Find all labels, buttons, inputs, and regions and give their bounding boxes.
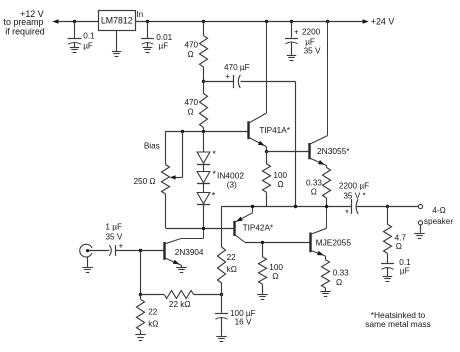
ground Q1 emitter xyxy=(176,265,187,272)
transistor Q4 TIP42A xyxy=(235,207,274,243)
resistor R9 22 kohm xyxy=(135,295,158,341)
svg-text:0.33: 0.33 xyxy=(306,178,322,187)
svg-text:100: 100 xyxy=(269,263,283,272)
svg-text:(3): (3) xyxy=(227,179,237,189)
junction rail/4.7 ohm xyxy=(386,205,389,208)
junction Q2 emitter node xyxy=(265,150,268,153)
svg-text:TIP41A*: TIP41A* xyxy=(259,126,290,135)
connector J1 input jack xyxy=(80,244,93,272)
terminal speaker - with ground xyxy=(414,221,425,239)
svg-text:+24 V: +24 V xyxy=(371,17,395,27)
svg-text:if required: if required xyxy=(5,26,45,36)
svg-text:2200 µF: 2200 µF xyxy=(339,181,369,190)
svg-text:Ω: Ω xyxy=(396,242,402,251)
resistor R8 4.7 ohm xyxy=(384,207,407,264)
svg-text:speaker: speaker xyxy=(424,217,453,226)
junction rail/Q3 collector xyxy=(326,20,329,23)
svg-text:+: + xyxy=(225,72,230,81)
resistor R3 100 ohm xyxy=(263,151,288,207)
wire +24V rail xyxy=(136,19,369,24)
junction feedback right xyxy=(220,293,223,296)
svg-text:Ω: Ω xyxy=(187,107,193,116)
svg-text:µF: µF xyxy=(305,37,315,46)
svg-text:µF: µF xyxy=(400,267,410,276)
junction bias/wiper xyxy=(181,130,184,133)
transistor Q5 MJE2055 xyxy=(311,207,352,257)
capacitor C7 1uF 35V input xyxy=(89,223,164,256)
svg-text:Ω: Ω xyxy=(278,180,284,189)
svg-text:22: 22 xyxy=(148,308,158,317)
svg-text:Bias: Bias xyxy=(144,142,160,151)
capacitor C5 2200uF 35V output xyxy=(339,181,388,217)
svg-text:2200: 2200 xyxy=(302,27,321,36)
ground LM7812 xyxy=(112,31,121,57)
svg-text:100: 100 xyxy=(273,171,287,180)
svg-text:*: * xyxy=(212,169,216,179)
junction bootstrap node xyxy=(202,80,205,83)
svg-text:*: * xyxy=(212,190,216,200)
label 4-ohm speaker xyxy=(424,206,453,226)
transistor Q2 TIP41A xyxy=(249,21,291,151)
wire bias bottom node xyxy=(166,228,235,230)
svg-text:µF: µF xyxy=(159,41,169,50)
junction rail/Q2 collector xyxy=(265,20,268,23)
capacitor C6 0.1uF zobel xyxy=(381,258,411,282)
junction rail/Q4 emitter xyxy=(251,205,254,208)
svg-text:0.1: 0.1 xyxy=(83,32,95,41)
svg-text:In: In xyxy=(136,10,143,19)
capacitor C1 0.1uF xyxy=(68,21,96,53)
transistor Q1 2N3904 xyxy=(165,228,204,265)
svg-text:470: 470 xyxy=(184,41,198,50)
junction +12V/0.1uF xyxy=(73,20,76,23)
label +24 V xyxy=(371,17,395,27)
label In pin xyxy=(136,10,143,19)
resistor R7 0.33 ohm xyxy=(320,256,349,297)
svg-text:Ω: Ω xyxy=(187,50,193,59)
resistor R6 100 ohm xyxy=(257,243,283,300)
wire rail to speaker terminal xyxy=(388,206,419,208)
terminal speaker + xyxy=(418,204,422,208)
junction Q4 collector/100 ohm xyxy=(261,241,264,244)
svg-text:*: * xyxy=(345,208,349,218)
svg-text:kΩ: kΩ xyxy=(227,265,237,274)
svg-text:22: 22 xyxy=(227,253,237,262)
svg-text:kΩ: kΩ xyxy=(148,320,158,329)
resistor R4 0.33 ohm xyxy=(306,166,330,207)
regulator U1 LM7812 xyxy=(99,11,136,31)
svg-text:470: 470 xyxy=(184,98,198,107)
capacitor C4 2200uF 35V xyxy=(285,20,321,61)
junction rail/Q3-Q5 xyxy=(325,205,328,208)
svg-text:Ω: Ω xyxy=(336,278,342,287)
svg-text:TIP42A*: TIP42A* xyxy=(243,224,274,233)
diode string D1-D3 IN4002 x3 xyxy=(197,132,244,229)
junction feedback left xyxy=(139,293,142,296)
svg-text:1 µF: 1 µF xyxy=(105,223,122,232)
svg-text:LM7812: LM7812 xyxy=(101,16,133,26)
svg-text:µF: µF xyxy=(83,41,93,50)
svg-text:35 V: 35 V xyxy=(304,47,321,56)
capacitor C2 0.01uF xyxy=(141,21,172,53)
svg-text:470 µF: 470 µF xyxy=(224,63,250,72)
svg-text:4-Ω: 4-Ω xyxy=(432,206,445,215)
svg-text:Ω: Ω xyxy=(272,272,278,281)
label heatsink note xyxy=(365,310,431,329)
svg-text:35 V: 35 V xyxy=(105,233,122,242)
svg-text:2N3055*: 2N3055* xyxy=(317,146,350,156)
potentiometer 250 ohm Bias xyxy=(133,131,182,228)
svg-text:Ω: Ω xyxy=(311,188,317,197)
wire Q4 collector to Q5 base xyxy=(245,242,311,244)
junction input node xyxy=(139,249,142,252)
svg-text:+: + xyxy=(119,242,124,251)
label +12 V output to preamp xyxy=(4,9,45,36)
resistor R2 470 ohm xyxy=(184,82,207,132)
svg-text:MJE2055: MJE2055 xyxy=(316,238,352,248)
svg-text:+: + xyxy=(294,27,299,36)
wire feedback from input node xyxy=(140,251,142,295)
wire Q2 emitter to Q3 base xyxy=(267,151,310,153)
junction rail/bootstrap xyxy=(294,205,297,208)
junction rail/0.01uF xyxy=(146,20,149,23)
capacitor C8 100uF 16V xyxy=(215,295,256,342)
svg-text:35 V *: 35 V * xyxy=(343,192,366,201)
wire bias node (TIP41A base) xyxy=(166,131,249,133)
junction bias bottom/diodes xyxy=(202,227,205,230)
svg-text:100 µF: 100 µF xyxy=(230,309,256,318)
svg-text:same metal mass: same metal mass xyxy=(365,319,431,329)
junction bias/diodes xyxy=(202,130,205,133)
svg-text:22 kΩ: 22 kΩ xyxy=(169,300,191,309)
wire output rail xyxy=(222,207,352,248)
svg-text:*: * xyxy=(212,149,216,159)
svg-text:16 V: 16 V xyxy=(235,318,252,327)
svg-text:0.33: 0.33 xyxy=(333,268,349,277)
wire +12V rail with left arrow xyxy=(52,19,98,24)
resistor R10 22 kohm xyxy=(141,291,222,310)
resistor R5 22 kohm feedback xyxy=(218,247,237,295)
junction rail/470 ohm chain xyxy=(202,20,205,23)
capacitor C3 470uF bootstrap xyxy=(204,63,296,206)
resistor R1 470 ohm xyxy=(184,21,207,82)
svg-text:2N3904: 2N3904 xyxy=(175,248,204,257)
transistor Q3 2N3055 xyxy=(310,21,351,166)
svg-text:250 Ω: 250 Ω xyxy=(133,177,155,186)
